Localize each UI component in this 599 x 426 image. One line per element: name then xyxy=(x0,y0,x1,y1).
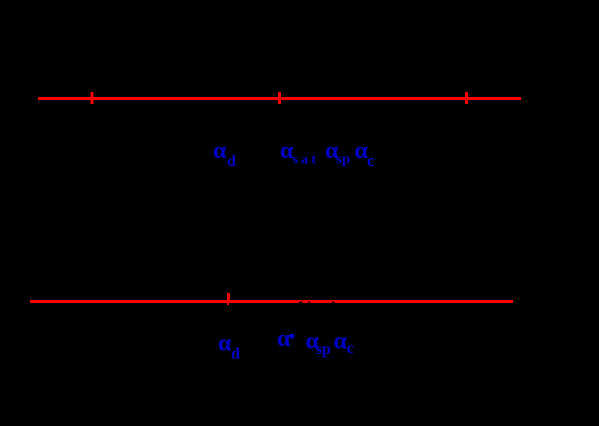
bottom tick xyxy=(227,293,230,305)
svg-text:sat: sat xyxy=(293,153,320,168)
svg-text:c: c xyxy=(347,340,354,357)
notch 3 on bottom line xyxy=(332,302,335,304)
label alpha_d (top) xyxy=(213,138,236,170)
notch on bottom tick xyxy=(229,303,231,305)
svg-text:c: c xyxy=(367,151,375,170)
label alpha-star (bottom) xyxy=(277,326,294,352)
notch 2 on bottom line xyxy=(308,302,310,304)
svg-text:d: d xyxy=(231,346,240,363)
top tick left xyxy=(91,92,94,104)
notch 1 on bottom line xyxy=(299,302,303,304)
label alpha_sp (top) xyxy=(325,138,350,167)
svg-text:d: d xyxy=(227,153,236,170)
svg-text:sp: sp xyxy=(336,152,350,168)
svg-text:α: α xyxy=(277,326,291,352)
svg-text:sp: sp xyxy=(316,341,331,358)
label alpha_sp (bottom) xyxy=(306,328,331,358)
svg-text:α: α xyxy=(218,330,232,356)
label alpha_c (bottom) xyxy=(334,329,354,358)
label alpha_sat (top) xyxy=(280,138,319,167)
label alpha_c (top) xyxy=(355,138,376,170)
bottom axis line xyxy=(30,300,513,303)
top tick right xyxy=(465,92,468,104)
top axis line xyxy=(38,97,521,100)
svg-text:α: α xyxy=(213,138,227,164)
label alpha_d (bottom) xyxy=(218,330,240,362)
top tick middle xyxy=(278,92,281,104)
svg-text:α: α xyxy=(334,329,348,355)
